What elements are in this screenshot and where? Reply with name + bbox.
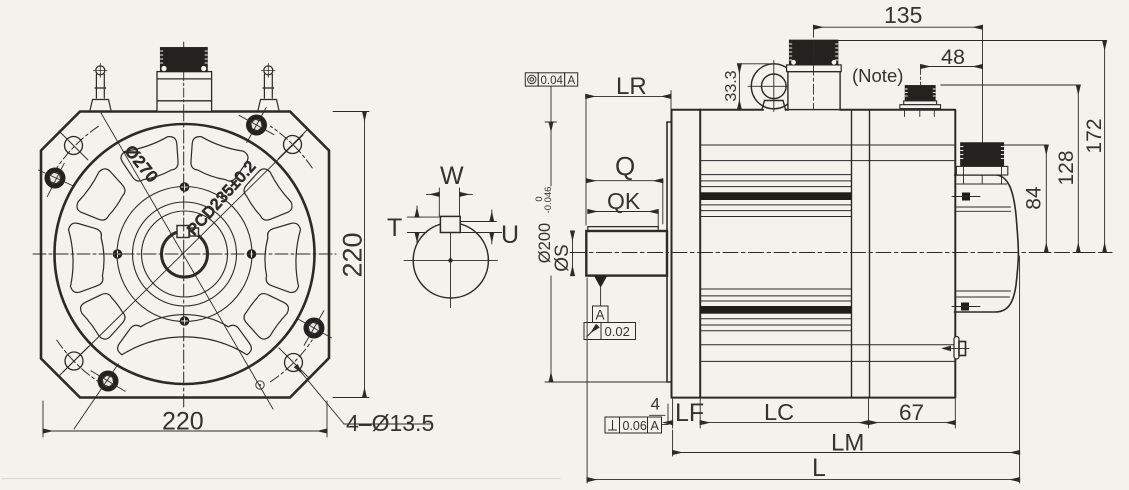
svg-text:Q: Q <box>615 151 635 181</box>
svg-text:LF: LF <box>675 399 704 427</box>
front view: corner mounting hole BR <box>279 348 308 377</box>
front view: shaft circle <box>162 231 208 277</box>
side view: main connector base <box>787 65 842 72</box>
side view: dim S (shaft dia) <box>572 231 574 276</box>
side view: rear stud <box>941 337 969 360</box>
front view: centerline vertical <box>183 42 185 410</box>
shaft section: center dot <box>448 258 452 262</box>
svg-text:84: 84 <box>1023 186 1046 210</box>
side view: small connector base <box>900 101 941 117</box>
side view: encoder cover lines <box>956 184 1011 297</box>
svg-text:T: T <box>387 214 402 242</box>
svg-text:QK: QK <box>607 188 641 214</box>
svg-text:220: 220 <box>338 232 368 277</box>
svg-text:0.06: 0.06 <box>623 419 647 433</box>
side view: dim row LF LC 67 <box>664 399 955 428</box>
side view: body rear ring lines <box>852 110 870 398</box>
front view: diagonal dimension line (steep, through center) <box>101 113 273 409</box>
front view: corner mounting hole BL <box>60 347 89 376</box>
front view: small circle on diagonal end <box>256 381 264 389</box>
front view: corner mounting hole TL <box>59 131 88 160</box>
front view: corner mounting hole TR <box>278 130 307 159</box>
side view: dim 128 <box>941 85 1079 253</box>
side view: body outline <box>672 110 956 398</box>
front view: centerline horizontal <box>33 253 336 255</box>
front view: cover bolt BL <box>74 364 125 429</box>
side view: dim LR <box>586 91 671 226</box>
svg-text:ØS: ØS <box>552 244 573 271</box>
front view: label 4-D13.5 with leader <box>296 366 344 424</box>
side view: shaft <box>586 231 667 276</box>
front view: inner circle r52 <box>133 202 237 306</box>
side view: dim 172 <box>837 41 1104 253</box>
side view: perpendicularity frame 0.06 A <box>605 417 668 433</box>
svg-text:LC: LC <box>764 399 794 425</box>
side view: spigot face <box>667 122 672 382</box>
side view: dim QK <box>588 212 658 228</box>
side view: runout frame 0.02 <box>584 323 636 340</box>
side view: main connector centerline <box>813 27 815 109</box>
side view: small connector centerline <box>920 67 922 86</box>
front view: eyebolt right <box>258 64 279 111</box>
svg-text:U: U <box>501 221 519 249</box>
side view: datum A triangle below shaft <box>594 276 607 288</box>
svg-text:172: 172 <box>1083 118 1106 153</box>
side view: small connector cap (black) <box>905 86 935 101</box>
shaft section: U dimension <box>460 210 502 244</box>
side view: dim Q <box>586 181 663 224</box>
front view: motor flange plate (chamfered square) <box>41 112 329 398</box>
front view: cover bolt BR <box>297 311 332 346</box>
side view: dim 135 <box>814 27 983 143</box>
front view: dimension 220 bottom <box>43 401 327 437</box>
side view: dim 48 <box>921 66 983 68</box>
shaft section: W dimension <box>426 188 472 216</box>
svg-text:0.02: 0.02 <box>605 324 630 339</box>
side view: dark fin bands <box>700 192 851 200</box>
side view: shaft centerline <box>570 252 1112 254</box>
side view: main connector cap (black) <box>790 40 838 65</box>
front view: eyebolt left <box>90 64 111 111</box>
svg-text:A: A <box>568 75 576 87</box>
front view: cooling slot ring (9 slots) <box>69 137 301 355</box>
side view: eyebolt <box>748 61 800 112</box>
svg-text:A: A <box>651 419 660 433</box>
svg-text:L: L <box>812 454 826 482</box>
front view: inner circle r68 <box>117 187 252 322</box>
front view: cover bolt TR <box>239 108 274 143</box>
side view: dim LM <box>673 256 1020 483</box>
front view: PCD dash-dot arcs at corners <box>57 126 312 381</box>
svg-text:LR: LR <box>616 73 647 100</box>
side view: dim 84 <box>1004 145 1047 253</box>
front view: cover bolt TL <box>38 163 74 196</box>
side view: encoder cover screw marks <box>962 193 970 201</box>
svg-text:48: 48 <box>941 45 965 69</box>
front view: connector threaded cap (black) <box>161 48 208 112</box>
scan artifact line <box>2 478 560 480</box>
side view: dim L <box>587 278 1020 483</box>
front view: motor body outer circle <box>55 124 315 384</box>
side view: centerline over shaft <box>571 252 668 254</box>
svg-text:LM: LM <box>831 430 864 457</box>
svg-text:-0.046: -0.046 <box>543 187 554 214</box>
side view: concentricity frame 0.04 A <box>525 73 577 86</box>
side view: shaft key <box>588 227 658 231</box>
svg-text:(Note): (Note) <box>852 65 903 86</box>
svg-text:4: 4 <box>651 395 660 414</box>
front view: inner circle r43 <box>142 211 228 297</box>
front view: diagonal PCD dimension line 45deg <box>63 135 303 372</box>
svg-text:A: A <box>596 308 605 323</box>
front view: keyway square on shaft <box>177 226 199 238</box>
side view: encoder connector base <box>956 166 1007 175</box>
front view: dimension 220 right <box>333 112 369 398</box>
side view: dim 33.3 <box>739 64 772 110</box>
side view: cooling fin lines <box>700 175 851 331</box>
svg-text:Ø200: Ø200 <box>536 223 554 263</box>
side view: body frame corner lines <box>700 145 954 361</box>
side view: main connector neck <box>788 72 840 110</box>
side view: encoder cover <box>955 175 1019 312</box>
svg-text:33.3: 33.3 <box>723 70 740 101</box>
svg-text:W: W <box>440 162 464 190</box>
front view: 4 screw dots on r66 circle <box>113 182 257 326</box>
front view: connector body <box>157 72 212 112</box>
svg-text:4–Ø13.5: 4–Ø13.5 <box>346 410 434 436</box>
svg-text:67: 67 <box>899 400 924 425</box>
shaft section: T dimension <box>407 206 440 244</box>
svg-text:128: 128 <box>1055 150 1078 185</box>
svg-text:0.04: 0.04 <box>541 75 564 87</box>
svg-text:135: 135 <box>884 2 922 28</box>
shaft section: centerlines <box>404 220 498 308</box>
side view: flange plate <box>672 110 701 398</box>
svg-text:220: 220 <box>162 408 204 436</box>
side view: dim D200 tolerance (vertical text) <box>545 121 557 123</box>
shaft section: key rect <box>440 216 460 232</box>
shaft section: circle <box>413 223 488 298</box>
side view: encoder connector cap (black) <box>961 143 1004 167</box>
